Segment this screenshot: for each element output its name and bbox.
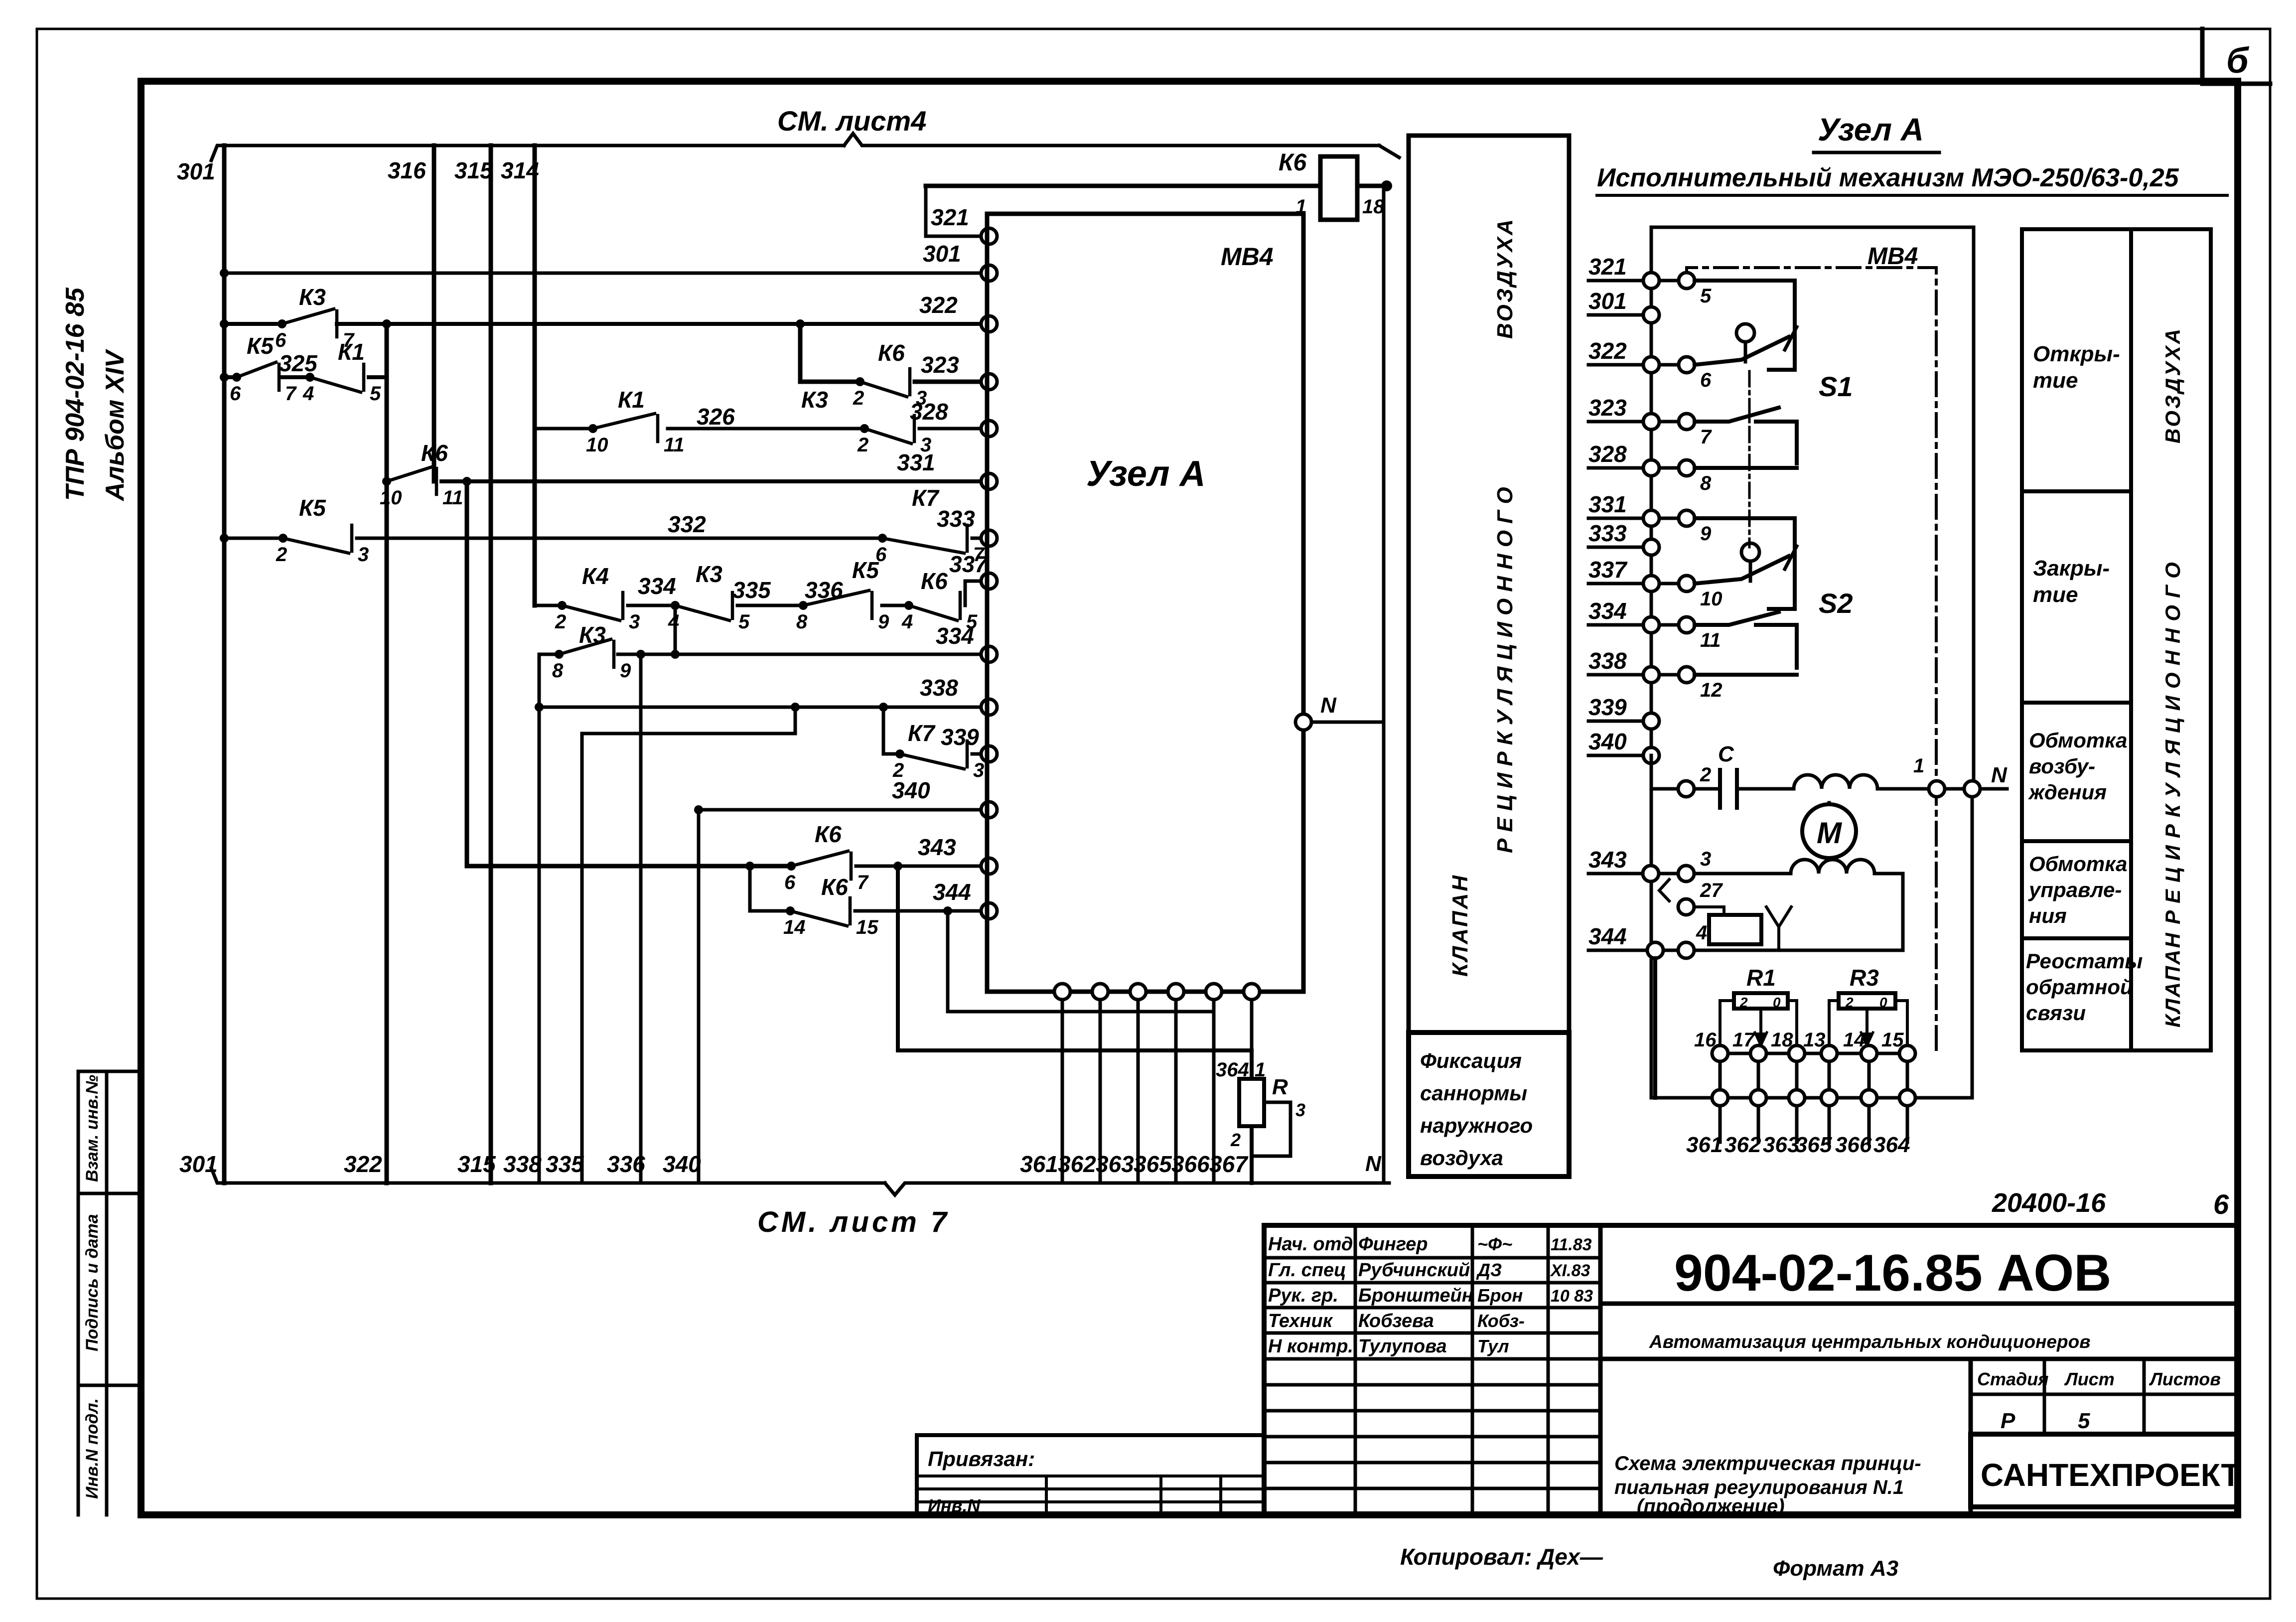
solenoid Y wire — [1694, 907, 1724, 915]
svg-text:саннормы: саннормы — [1420, 1081, 1527, 1105]
svg-text:6: 6 — [230, 383, 241, 405]
wire 301 vertical bus — [222, 146, 227, 1183]
wire row 331 via contact K6 10-11 — [441, 479, 981, 483]
svg-text:R: R — [1272, 1075, 1288, 1099]
contact K1 4-5 row325 — [305, 373, 314, 382]
wires box bottom to sheet7 bus — [1061, 1000, 1064, 1183]
svg-text:Нач. отд.: Нач. отд. — [1268, 1234, 1358, 1255]
svg-text:344: 344 — [933, 879, 971, 905]
unit box Узел А — [987, 214, 1303, 992]
svg-text:315: 315 — [457, 1151, 496, 1177]
contact K6 14-15 — [786, 906, 795, 915]
svg-text:Копировал: Дех—: Копировал: Дех— — [1400, 1544, 1603, 1570]
svg-text:Подпись и дата: Подпись и дата — [83, 1214, 102, 1351]
svg-text:325: 325 — [279, 350, 318, 376]
svg-text:б: б — [2226, 41, 2250, 81]
svg-text:1: 1 — [1295, 196, 1306, 218]
svg-text:К6: К6 — [1279, 149, 1307, 176]
svg-text:8: 8 — [796, 611, 808, 633]
wire 336 vertical — [639, 654, 643, 1183]
terminal N right — [1964, 781, 1980, 797]
wire row 338 into bracket — [1695, 673, 1797, 677]
capacitor C — [1694, 787, 1720, 791]
svg-text:К6: К6 — [821, 874, 848, 900]
svg-text:333: 333 — [937, 506, 975, 532]
svg-text:334: 334 — [936, 623, 974, 649]
svg-text:338: 338 — [503, 1151, 542, 1177]
terminal 321 on box — [981, 228, 997, 244]
svg-text:2: 2 — [555, 611, 566, 633]
svg-text:322: 322 — [344, 1151, 382, 1177]
end hook of sheet4 line — [1379, 146, 1399, 157]
svg-text:Узел А: Узел А — [1086, 454, 1206, 494]
solenoid Y symbol — [1766, 907, 1791, 927]
svg-text:3: 3 — [1295, 1100, 1305, 1120]
wire coil to N bus — [1357, 184, 1384, 188]
svg-text:Схема электрическая принци-: Схема электрическая принци- — [1614, 1453, 1921, 1475]
contact K6 2-3 — [856, 377, 864, 386]
motor M — [1802, 804, 1856, 858]
contact K1 10-11 on row 326 — [588, 424, 597, 433]
svg-text:S1: S1 — [1819, 371, 1853, 402]
terminal drops 361 362 363 365 366 364 — [1719, 1106, 1722, 1142]
svg-text:N: N — [1365, 1152, 1382, 1176]
svg-text:обратной: обратной — [2026, 975, 2133, 999]
svg-text:337: 337 — [949, 551, 989, 577]
svg-text:XI.83: XI.83 — [1550, 1261, 1590, 1280]
svg-text:Альбом XIV: Альбом XIV — [101, 348, 130, 502]
wire 344 down — [1653, 958, 1657, 1098]
contact K6 10-11 — [382, 477, 391, 486]
svg-text:340: 340 — [892, 777, 930, 803]
left attribute column boxes — [77, 1071, 80, 1515]
wire bus right unit down to row 2 — [1650, 755, 1653, 1098]
contact K3 4-5 — [671, 601, 680, 610]
switch S2 lower bracket — [1756, 625, 1797, 668]
svg-text:301: 301 — [923, 241, 961, 267]
svg-text:301: 301 — [1588, 288, 1627, 314]
wire 315 vertical — [489, 146, 493, 1183]
junction 344 down tap — [943, 906, 952, 915]
contact K7 2-3 row339 — [895, 749, 904, 758]
svg-text:Привязан:: Привязан: — [928, 1447, 1035, 1471]
svg-text:Н контр.: Н контр. — [1268, 1336, 1353, 1357]
svg-text:12: 12 — [1700, 679, 1722, 701]
button S2 — [1741, 543, 1759, 561]
contact K3 2-3 on row 328 — [860, 424, 869, 433]
svg-text:6: 6 — [784, 872, 796, 893]
title block outline — [1264, 1225, 2238, 1515]
svg-text:361: 361 — [1020, 1151, 1058, 1177]
wire N down to junction row — [1915, 797, 1972, 1098]
svg-text:337: 337 — [1588, 557, 1628, 583]
svg-text:Рук. гр.: Рук. гр. — [1268, 1285, 1338, 1306]
svg-text:15: 15 — [856, 916, 878, 938]
switch S1 lower blade — [1695, 408, 1779, 422]
svg-text:7: 7 — [1700, 426, 1712, 448]
svg-text:301: 301 — [177, 158, 215, 184]
terminal 343 on box — [981, 858, 997, 874]
svg-text:335: 335 — [546, 1151, 584, 1177]
wire row 334 via contact K3 8-9 — [539, 653, 559, 656]
svg-text:К5: К5 — [247, 333, 274, 359]
svg-text:331: 331 — [1588, 491, 1627, 517]
svg-text:N: N — [1320, 693, 1337, 718]
solenoid Y rect — [1709, 915, 1761, 944]
svg-text:связи: связи — [2026, 1001, 2086, 1025]
svg-text:6: 6 — [2213, 1188, 2229, 1220]
svg-text:2: 2 — [857, 434, 868, 456]
right column box Открытие — [2022, 229, 2131, 491]
svg-text:тие: тие — [2033, 583, 2078, 607]
logo САНТЕХПРОЕКТ — [1971, 1434, 2238, 1507]
wire row 326-328 — [535, 427, 593, 431]
terminal 301 on box — [981, 265, 997, 281]
terminal 339 on box — [981, 746, 997, 762]
right unit outer wire top — [1651, 227, 1974, 1098]
svg-text:334: 334 — [638, 573, 676, 599]
svg-text:ния: ния — [2029, 904, 2067, 927]
svg-text:К1: К1 — [618, 387, 645, 413]
svg-text:К3: К3 — [696, 561, 722, 587]
wire 343 feeder vertical — [465, 481, 469, 866]
svg-text:332: 332 — [668, 511, 706, 537]
svg-text:6: 6 — [1700, 369, 1712, 391]
svg-text:Исполнительный механизм МЭО-25: Исполнительный механизм МЭО-250/63-0,25 — [1597, 163, 2179, 192]
right column box Закрытие — [2022, 491, 2131, 703]
svg-text:К6: К6 — [878, 340, 905, 366]
switch S1 blade — [1695, 337, 1789, 365]
box Фиксация саннормы наружного воздуха — [1409, 1032, 1569, 1177]
svg-text:0: 0 — [1773, 995, 1781, 1010]
svg-text:343: 343 — [918, 834, 956, 860]
svg-text:МВ4: МВ4 — [1867, 243, 1918, 270]
svg-text:14: 14 — [783, 916, 806, 938]
svg-text:3: 3 — [973, 759, 984, 781]
terminal 333 on box — [981, 530, 997, 546]
wire 314 vertical — [533, 146, 537, 605]
wire 344 to terminal 366 — [948, 911, 1214, 1183]
svg-text:К6: К6 — [921, 568, 948, 594]
svg-text:Обмотка: Обмотка — [2029, 729, 2127, 752]
svg-text:СМ. лист4: СМ. лист4 — [777, 105, 926, 137]
svg-text:10: 10 — [586, 434, 608, 456]
svg-text:Формат А3: Формат А3 — [1773, 1556, 1898, 1581]
svg-text:Тулупова: Тулупова — [1358, 1336, 1447, 1357]
svg-text:S2: S2 — [1819, 588, 1853, 619]
contact K6 6-7 row343 — [787, 862, 796, 871]
terminal N on box right — [1295, 714, 1311, 730]
wire 316 vertical — [432, 146, 436, 481]
svg-text:8: 8 — [552, 660, 564, 682]
svg-text:3: 3 — [358, 544, 369, 566]
svg-text:0: 0 — [1879, 995, 1887, 1010]
svg-text:Техник: Техник — [1268, 1311, 1333, 1331]
svg-text:~Ф~: ~Ф~ — [1477, 1234, 1512, 1254]
MB4 dash-dot boundary — [1687, 268, 1936, 1053]
svg-text:7: 7 — [285, 383, 297, 405]
row 2 capacitor motor row — [1678, 781, 1694, 797]
svg-text:КЛАПАН: КЛАПАН — [2161, 931, 2184, 1028]
contact K4 2-3 — [558, 601, 567, 610]
svg-text:Кобзева: Кобзева — [1358, 1311, 1434, 1331]
svg-text:316: 316 — [388, 157, 426, 183]
svg-text:Узел А: Узел А — [1818, 112, 1924, 147]
svg-text:К3: К3 — [579, 622, 606, 648]
svg-text:Р: Р — [2001, 1409, 2015, 1433]
svg-text:2: 2 — [1739, 995, 1748, 1010]
contact K3 on row 322 — [278, 319, 287, 328]
svg-text:11: 11 — [664, 434, 685, 456]
svg-text:1: 1 — [1913, 755, 1924, 777]
contact K5 8-9 — [799, 601, 808, 610]
right column box Реостаты обратной связи — [2022, 938, 2131, 1050]
actuator link S1-S2 dash-dot — [1748, 371, 1751, 547]
svg-text:322: 322 — [1588, 338, 1627, 364]
wire 335 tap off row 338 — [582, 707, 795, 1183]
terminal 334 on box — [981, 646, 997, 662]
svg-text:9: 9 — [620, 660, 631, 682]
svg-text:управле-: управле- — [2028, 878, 2122, 901]
svg-text:тие: тие — [2033, 368, 2078, 393]
svg-text:РЕЦИРКУЛЯЦИОННОГО: РЕЦИРКУЛЯЦИОННОГО — [2161, 555, 2184, 924]
svg-text:364.1: 364.1 — [1216, 1059, 1266, 1081]
junction 331 to 343 drop — [462, 477, 471, 486]
terminal 328 on box — [981, 421, 997, 437]
svg-text:Автоматизация центральных ко: Автоматизация центральных кондиционеров — [1649, 1331, 2091, 1352]
svg-text:10 83: 10 83 — [1551, 1287, 1593, 1306]
svg-text:САНТЕХПРОЕКТ: САНТЕХПРОЕКТ — [1981, 1457, 2241, 1493]
wire N bus vertical — [1382, 186, 1386, 1183]
svg-text:воздуха: воздуха — [1420, 1146, 1503, 1170]
button S1 — [1736, 324, 1754, 342]
svg-text:Реостаты: Реостаты — [2026, 949, 2143, 973]
wire row 301 to box — [224, 272, 981, 275]
terminal 340 on box — [981, 802, 997, 818]
svg-text:904-02-16.85 АОВ: 904-02-16.85 АОВ — [1674, 1244, 2111, 1302]
terminal 323 on box — [981, 374, 997, 390]
junction coil-N — [1381, 180, 1392, 191]
svg-text:N: N — [1991, 763, 2008, 787]
wire row 322 — [224, 322, 282, 326]
svg-text:9: 9 — [878, 611, 889, 633]
right narrow column Клапан рециркуляционного воздуха — [2131, 229, 2211, 1050]
svg-text:ТПР 904-02-16 85: ТПР 904-02-16 85 — [61, 287, 90, 501]
svg-text:363: 363 — [1763, 1133, 1799, 1157]
junction 343 down tap — [893, 862, 902, 871]
svg-text:18: 18 — [1362, 196, 1385, 218]
control winding inductor — [1694, 872, 1791, 876]
svg-text:К3: К3 — [801, 387, 828, 413]
contact K3 8-9 row334 — [555, 650, 564, 659]
svg-text:ВОЗДУХА: ВОЗДУХА — [2161, 327, 2184, 443]
svg-text:3: 3 — [629, 611, 640, 633]
svg-text:2: 2 — [1845, 995, 1854, 1010]
svg-text:К1: К1 — [338, 339, 365, 365]
svg-text:К3: К3 — [299, 284, 326, 310]
wire row 337 feeder — [535, 604, 562, 607]
resistor R 364.1 — [1239, 1079, 1264, 1126]
svg-text:314: 314 — [501, 157, 539, 183]
box bottom terminals — [1054, 984, 1070, 1000]
svg-text:367: 367 — [1209, 1151, 1249, 1177]
svg-text:366: 366 — [1835, 1133, 1872, 1157]
svg-text:339: 339 — [941, 724, 979, 750]
tall box Клапан рециркуляционного воздуха — [1409, 136, 1569, 1032]
svg-text:340: 340 — [663, 1151, 701, 1177]
svg-text:К6: К6 — [421, 440, 448, 466]
switch S1 lower bracket — [1756, 422, 1797, 463]
right column box Обмотка возбуждения — [2022, 703, 2131, 841]
wire row 325 — [224, 375, 237, 379]
svg-text:4: 4 — [302, 383, 314, 405]
contact K5 2-3 on row 332 — [279, 534, 287, 543]
svg-text:Фингер: Фингер — [1358, 1234, 1428, 1255]
svg-text:328: 328 — [1588, 441, 1627, 467]
coil K6 rectangle — [1320, 156, 1357, 220]
sheet number box top right — [2202, 29, 2270, 84]
svg-text:8: 8 — [1700, 472, 1712, 494]
terminal 337 on box — [981, 573, 997, 589]
svg-text:321: 321 — [931, 204, 969, 230]
svg-text:11.83: 11.83 — [1551, 1235, 1592, 1254]
svg-text:2: 2 — [1700, 764, 1711, 786]
wire below resistor R — [1250, 1126, 1254, 1183]
svg-text:5: 5 — [370, 383, 381, 405]
wire 322 tap vertical — [385, 324, 389, 1183]
svg-text:326: 326 — [697, 404, 735, 430]
wire 340 vertical — [697, 810, 701, 1183]
junction 322 tap — [382, 319, 391, 328]
svg-text:5: 5 — [2078, 1409, 2090, 1433]
svg-text:ВОЗДУХА: ВОЗДУХА — [1493, 217, 1517, 339]
wire row 321 — [926, 186, 981, 236]
svg-text:К7: К7 — [912, 485, 940, 511]
wire row 332-333 — [224, 537, 283, 540]
svg-text:Тул: Тул — [1477, 1336, 1509, 1356]
svg-text:К4: К4 — [582, 563, 609, 589]
svg-text:340: 340 — [1588, 729, 1627, 754]
svg-text:343: 343 — [1588, 847, 1627, 873]
coil K6 wire from 321 — [926, 184, 1320, 188]
vertical link rows 337-334 — [674, 605, 677, 654]
svg-text:Обмотка: Обмотка — [2029, 852, 2127, 876]
grid Привязан — [917, 1433, 1264, 1437]
side loop of resistor R — [1252, 1102, 1291, 1156]
wire row 343 via contact K6 6-7 — [467, 864, 791, 869]
svg-text:362: 362 — [1724, 1133, 1761, 1157]
svg-text:РЕЦИРКУЛЯЦИОННОГО: РЕЦИРКУЛЯЦИОННОГО — [1493, 480, 1517, 853]
svg-text:2: 2 — [1230, 1130, 1241, 1150]
svg-text:Рубчинский: Рубчинский — [1358, 1260, 1470, 1281]
bottom boundary line to sheet 7 with brace — [211, 1168, 885, 1183]
field winding inductor — [1794, 775, 1877, 789]
svg-text:362: 362 — [1058, 1151, 1096, 1177]
svg-text:Листов: Листов — [2149, 1369, 2221, 1389]
svg-text:333: 333 — [1588, 520, 1627, 546]
switch S2 lower blade — [1695, 612, 1779, 625]
svg-text:364: 364 — [1873, 1133, 1910, 1157]
svg-text:М: М — [1817, 816, 1843, 850]
svg-text:Инв.N подл.: Инв.N подл. — [83, 1398, 102, 1499]
jumper 3 to 27 — [1659, 880, 1669, 901]
wire step into 337 terminal — [965, 581, 981, 605]
right column box Обмотка управления — [2022, 841, 2131, 938]
svg-text:R3: R3 — [1850, 965, 1879, 991]
svg-text:338: 338 — [1588, 648, 1627, 674]
wire row 328 into bracket — [1695, 466, 1797, 470]
svg-text:наружного: наружного — [1420, 1114, 1533, 1137]
svg-text:363: 363 — [1096, 1151, 1134, 1177]
svg-text:Инв.N: Инв.N — [928, 1495, 981, 1516]
svg-text:339: 339 — [1588, 694, 1627, 720]
terminal 331 on box — [981, 473, 997, 489]
wire 343 to terminal 367 — [898, 866, 1252, 1079]
svg-text:27: 27 — [1700, 880, 1723, 901]
terminal 344 on box — [981, 903, 997, 919]
boundary line to sheet 4 with brace — [211, 146, 844, 160]
stage sheet table — [1969, 1359, 1973, 1515]
svg-text:К7: К7 — [908, 720, 936, 746]
signature table — [1264, 1256, 1600, 1260]
svg-text:КЛАПАН: КЛАПАН — [1448, 874, 1472, 977]
svg-text:Откры-: Откры- — [2033, 342, 2120, 366]
svg-text:315: 315 — [454, 157, 493, 183]
svg-text:7: 7 — [857, 872, 869, 893]
svg-text:361: 361 — [1686, 1133, 1722, 1157]
svg-text:Фиксация: Фиксация — [1420, 1049, 1522, 1072]
svg-text:МВ4: МВ4 — [1221, 243, 1274, 271]
svg-text:11: 11 — [1700, 629, 1721, 651]
svg-text:Бронштейн: Бронштейн — [1358, 1285, 1473, 1306]
svg-text:R1: R1 — [1746, 965, 1776, 991]
contact K5 6-7 row325 — [232, 373, 241, 382]
svg-text:20400-16: 20400-16 — [1992, 1188, 2106, 1218]
svg-text:ждения: ждения — [2028, 780, 2107, 804]
svg-text:335: 335 — [732, 577, 771, 603]
terminal 338 on box — [981, 699, 997, 715]
junction 343-344 tap — [745, 862, 754, 871]
switch S2 top bracket — [1695, 518, 1795, 609]
svg-text:9: 9 — [1700, 523, 1712, 545]
svg-text:338: 338 — [920, 675, 958, 701]
switch S1 top bracket — [1695, 281, 1795, 370]
svg-text:Закры-: Закры- — [2033, 556, 2110, 581]
terminal 322 on box — [981, 316, 997, 332]
svg-text:328: 328 — [910, 399, 948, 425]
svg-text:6: 6 — [275, 329, 287, 351]
svg-text:Стадия: Стадия — [1977, 1369, 2048, 1389]
svg-text:ДЗ: ДЗ — [1476, 1260, 1502, 1280]
svg-text:5: 5 — [738, 611, 750, 633]
svg-text:К5: К5 — [852, 557, 879, 583]
svg-text:2: 2 — [276, 544, 287, 566]
wire 322 to 323 drop — [796, 319, 805, 328]
wire N from box to N bus — [1311, 721, 1384, 724]
svg-text:Кобз-: Кобз- — [1477, 1311, 1525, 1331]
svg-text:10: 10 — [1700, 588, 1722, 610]
svg-text:Гл. спец: Гл. спец — [1268, 1260, 1346, 1281]
svg-text:2: 2 — [853, 387, 864, 409]
svg-text:334: 334 — [1588, 598, 1627, 624]
svg-text:возбу-: возбу- — [2029, 754, 2095, 778]
svg-text:(продолжение): (продолжение) — [1637, 1495, 1785, 1517]
contact K6 4-5 — [904, 601, 913, 610]
svg-text:Взам. инв.№: Взам. инв.№ — [83, 1075, 102, 1182]
wire row 323 via contact K6 — [800, 380, 860, 384]
svg-text:C: C — [1718, 742, 1734, 766]
svg-text:4: 4 — [1696, 922, 1707, 944]
